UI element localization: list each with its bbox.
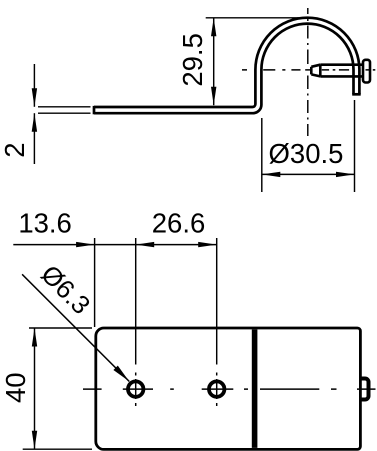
dimension D30.5 line xyxy=(262,173,355,175)
extension line plate left edge xyxy=(94,238,96,327)
leader line for D6.3 xyxy=(22,274,129,381)
dimension D30.5 arrow left xyxy=(262,172,281,177)
svg-text:40: 40 xyxy=(0,372,31,403)
pin cone/shaft junction xyxy=(319,65,322,77)
svg-text:2: 2 xyxy=(0,142,30,157)
svg-text:29.5: 29.5 xyxy=(177,33,208,87)
hook end cap xyxy=(352,93,361,96)
pin tip face xyxy=(310,67,313,75)
bend tangent line (thick) xyxy=(252,330,258,448)
svg-text:26.6: 26.6 xyxy=(152,208,206,239)
dimension 40 line xyxy=(34,328,36,449)
svg-text:13.6: 13.6 xyxy=(18,208,72,239)
hole 1 xyxy=(128,381,143,396)
dimension D30.5 extension line right xyxy=(354,100,356,192)
dimension 2 line upper segment xyxy=(33,64,35,107)
pin / rivet through hook wall xyxy=(311,60,370,83)
hole 2 xyxy=(209,381,224,396)
dimension D30.5 extension line left xyxy=(261,118,263,192)
hole 1 vertical center mark xyxy=(135,373,137,407)
dimension 2 line lower segment xyxy=(33,113,35,164)
dimension 40 extension line bottom xyxy=(23,448,92,450)
dimension 40 arrow down xyxy=(32,431,37,450)
pin shaft xyxy=(320,65,363,77)
pin head xyxy=(363,60,370,83)
vertical centerline of hook xyxy=(307,8,309,136)
leader arrow at hole 1 xyxy=(113,366,129,382)
dimension 2 arrow down xyxy=(32,88,37,107)
dimension 29.5 arrow down xyxy=(211,87,216,106)
strip left end cap xyxy=(93,106,96,114)
dimension 13.6 arrow (outside, points right at plate edge) xyxy=(76,242,95,247)
pin cone xyxy=(311,65,320,77)
dimension 26.6 arrow left (points left at hole1) xyxy=(136,242,155,247)
dimension 29.5 line xyxy=(213,18,215,105)
dimension 2 arrow up xyxy=(32,113,37,132)
dimension 13.6 / 26.6 shared line xyxy=(13,244,216,246)
svg-text:Ø30.5: Ø30.5 xyxy=(269,138,344,169)
horizontal centerline of hook / pin xyxy=(242,69,375,71)
dimension 29.5 extension line (hook top) xyxy=(206,17,314,19)
extension line hole 2 xyxy=(216,238,218,365)
plate outline xyxy=(96,328,361,449)
dimension 40 extension line top xyxy=(29,327,92,329)
part outline: strip bottom surface + bend outer + loop inner contour xyxy=(94,24,354,114)
horizontal centerline through holes xyxy=(83,388,376,390)
dimension 26.6 arrow right (points right at hole2) xyxy=(198,242,217,247)
dimension 40 arrow up xyxy=(32,328,37,347)
pin head bump on right edge xyxy=(360,379,369,400)
part outline: strip top surface + bend + loop outer contour xyxy=(94,18,361,115)
hole 2 vertical center mark xyxy=(216,373,218,407)
dimension 29.5 arrow up xyxy=(211,18,216,37)
dimension D30.5 arrow right xyxy=(336,172,355,177)
dimension 2 extension lines xyxy=(38,107,91,113)
extension line hole 1 xyxy=(135,238,137,365)
